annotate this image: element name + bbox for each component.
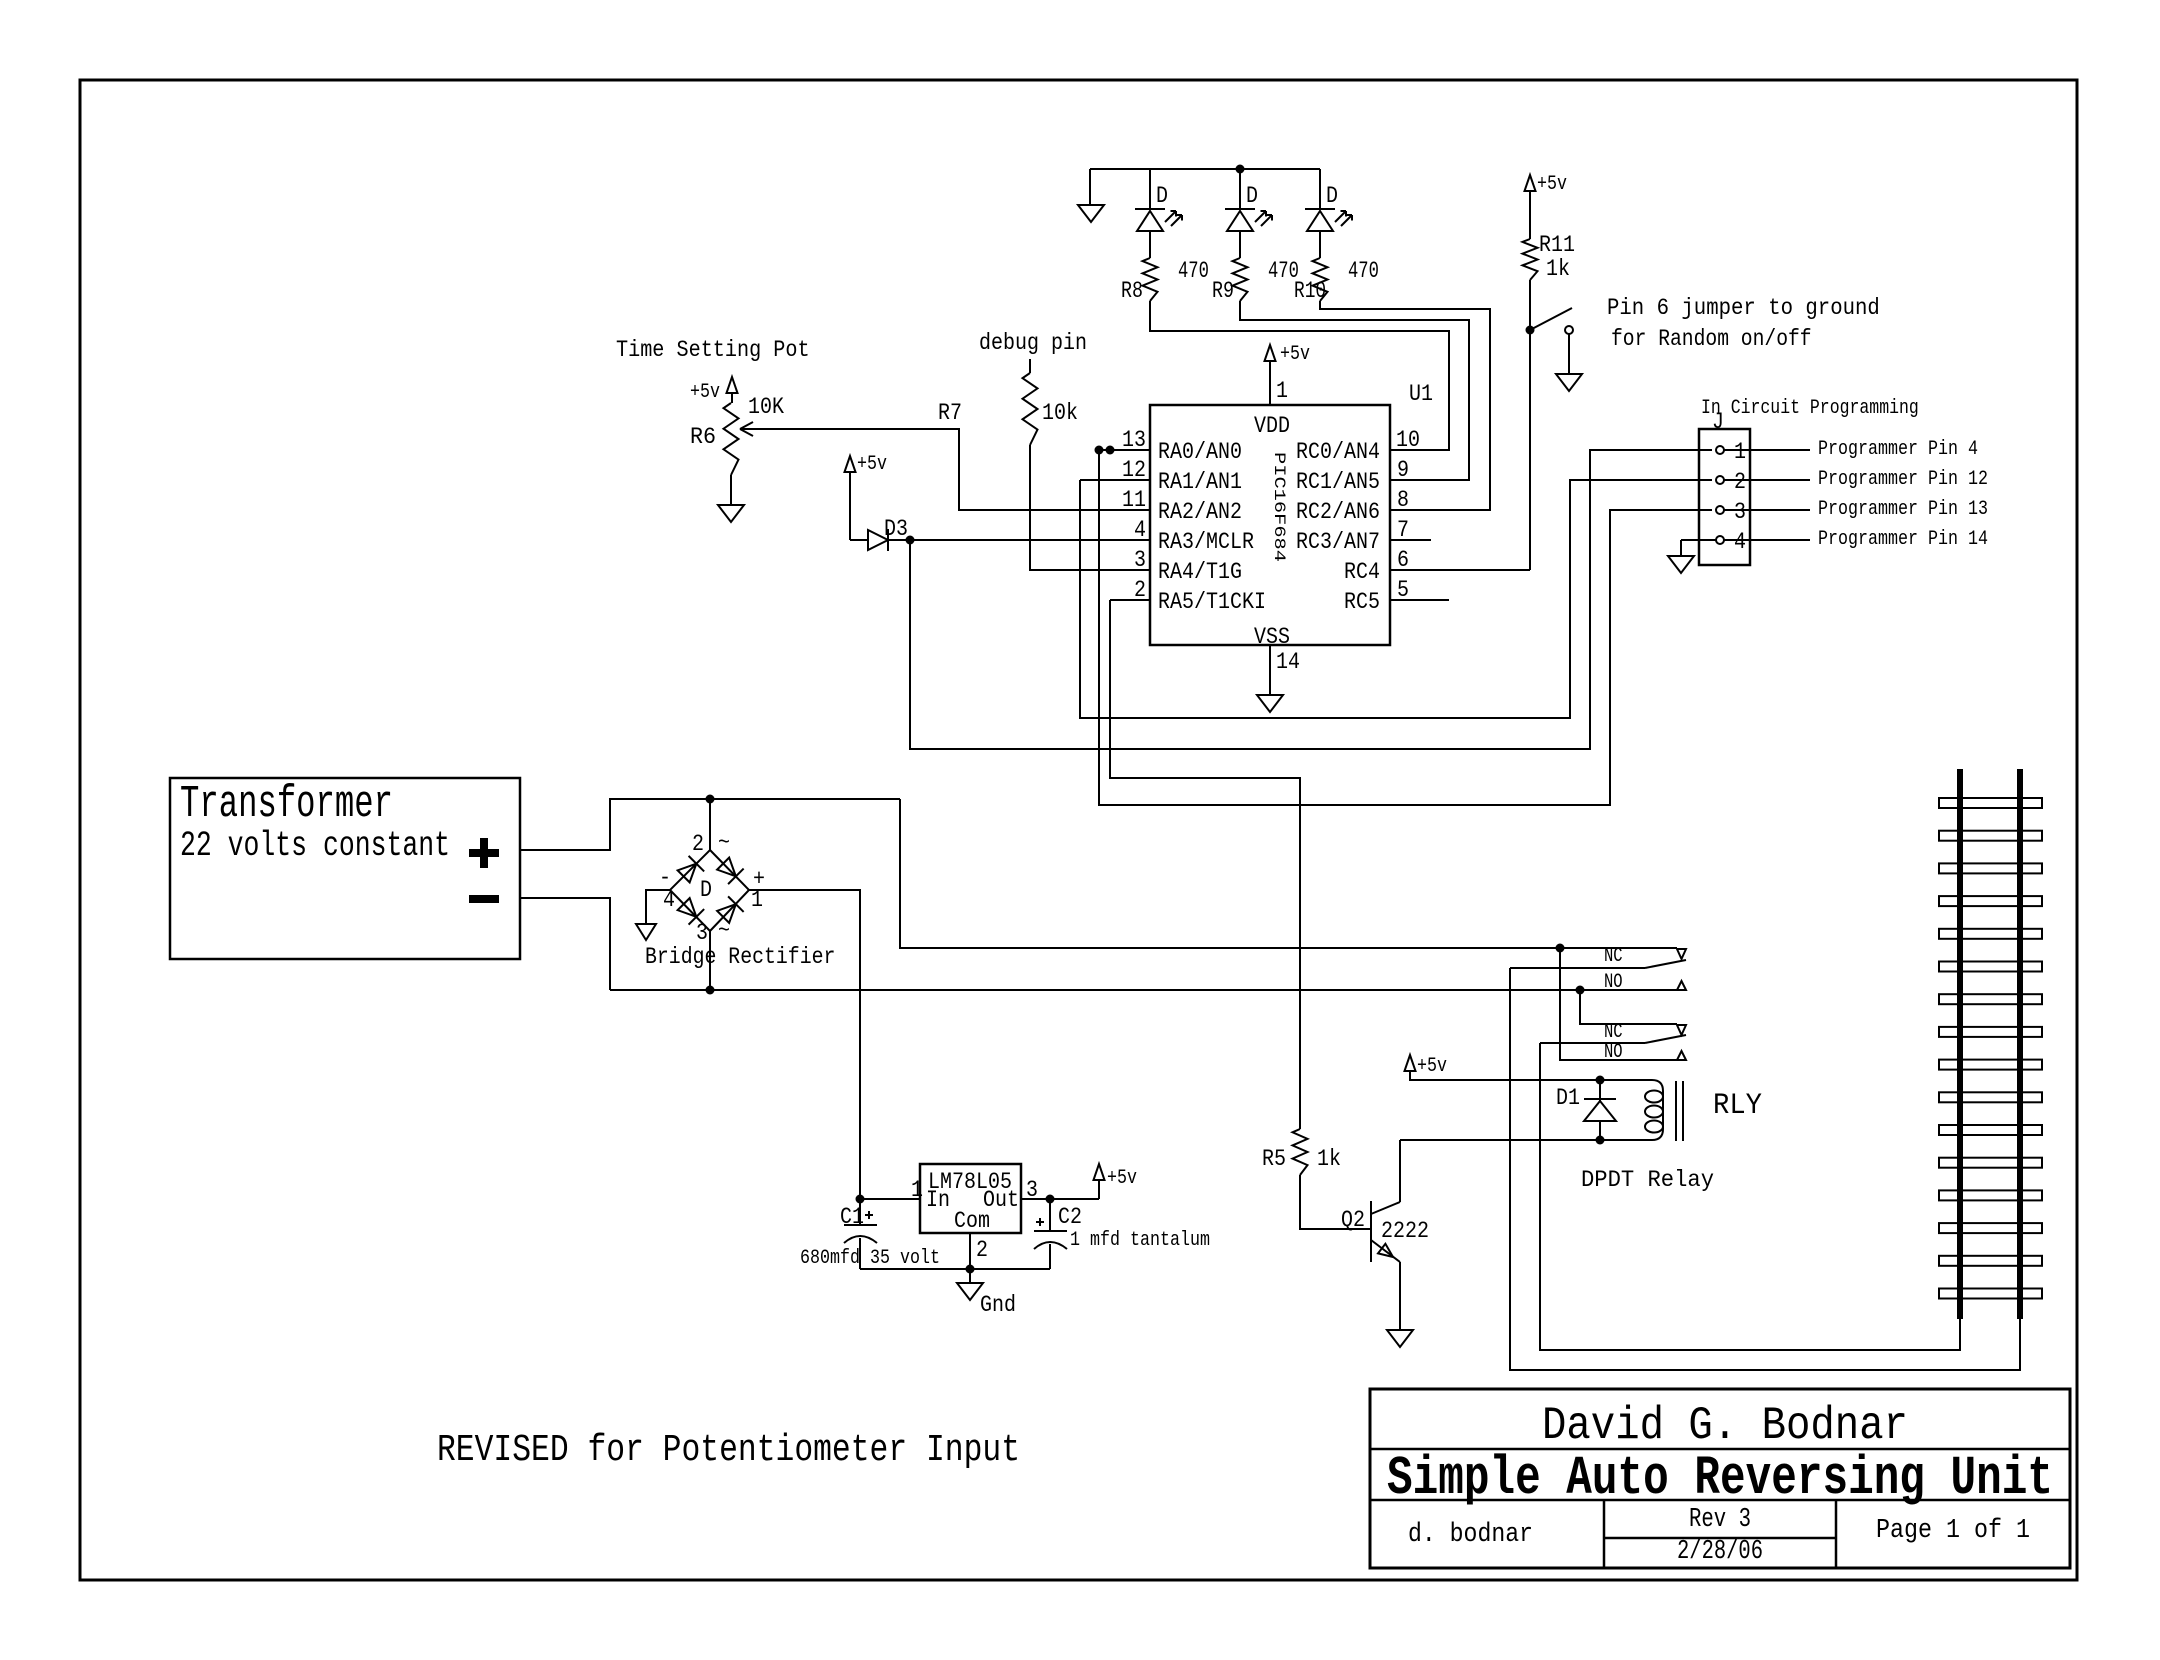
resistor R8 470 bbox=[1143, 258, 1158, 301]
svg-text:5: 5 bbox=[1397, 577, 1409, 603]
diode D1 bbox=[1599, 1080, 1601, 1101]
relay contact NO2 bbox=[1677, 1051, 1686, 1060]
resistor R10 470 bbox=[1313, 258, 1328, 301]
svg-text:3: 3 bbox=[1026, 1177, 1038, 1203]
svg-text:11: 11 bbox=[1122, 487, 1146, 513]
svg-text:Rev 3: Rev 3 bbox=[1689, 1505, 1751, 1535]
svg-text:1: 1 bbox=[1734, 439, 1746, 465]
track left rail bbox=[1957, 769, 1963, 1319]
jumper switch blade bbox=[1530, 308, 1572, 330]
regulator pin1 wire bbox=[860, 1198, 920, 1200]
svg-text:RC5: RC5 bbox=[1344, 589, 1380, 615]
node coil bottom bbox=[1596, 1136, 1605, 1145]
svg-text:~: ~ bbox=[718, 830, 730, 856]
wire header pin2 right bbox=[1724, 479, 1810, 481]
svg-text:R10: R10 bbox=[1294, 278, 1326, 304]
svg-text:VSS: VSS bbox=[1254, 624, 1290, 650]
wire MCLR to header pin1 bbox=[910, 450, 1712, 749]
svg-text:Programmer Pin 14: Programmer Pin 14 bbox=[1818, 528, 1988, 551]
svg-text:12: 12 bbox=[1122, 457, 1146, 483]
svg-text:10: 10 bbox=[1396, 427, 1420, 453]
svg-text:+5v: +5v bbox=[1537, 173, 1567, 196]
regulator LM78L05 box bbox=[920, 1164, 1021, 1233]
svg-text:D1: D1 bbox=[1556, 1085, 1580, 1111]
svg-text:3: 3 bbox=[696, 920, 708, 946]
svg-text:REVISED for Potentiometer Inpu: REVISED for Potentiometer Input bbox=[437, 1429, 1020, 1472]
svg-text:Gnd: Gnd bbox=[980, 1292, 1016, 1318]
pin 7 RC3/AN7 stub bbox=[1390, 539, 1431, 541]
svg-text:D: D bbox=[1156, 183, 1168, 209]
svg-text:d. bodnar: d. bodnar bbox=[1408, 1520, 1533, 1550]
transformer plus terminal bbox=[469, 849, 499, 857]
node D3 junction bbox=[906, 536, 915, 545]
svg-text:+5v: +5v bbox=[690, 381, 720, 404]
svg-text:Programmer Pin 12: Programmer Pin 12 bbox=[1818, 468, 1988, 491]
svg-text:+5v: +5v bbox=[857, 453, 887, 476]
node LED rail junction bbox=[1236, 165, 1245, 174]
svg-text:for Random on/off: for Random on/off bbox=[1611, 326, 1812, 352]
title mid sep bbox=[1604, 1537, 1836, 1540]
wire R9 to pin 9 bbox=[1240, 301, 1469, 480]
node NC1 junction bbox=[1556, 944, 1565, 953]
pin 5 RC5 stub bbox=[1390, 599, 1449, 601]
wire ac bottom to NO1 bbox=[610, 989, 1677, 991]
svg-text:RA2/AN2: RA2/AN2 bbox=[1158, 499, 1242, 525]
title row sep1 bbox=[1370, 1448, 2070, 1451]
wire header pin1 right bbox=[1724, 449, 1810, 451]
svg-text:Q2: Q2 bbox=[1341, 1207, 1365, 1233]
relay pole2 common and blade bbox=[1540, 1042, 1645, 1044]
svg-text:debug pin: debug pin bbox=[979, 330, 1087, 356]
svg-text:RLY: RLY bbox=[1713, 1089, 1762, 1123]
svg-text:Bridge Rectifier: Bridge Rectifier bbox=[645, 944, 835, 970]
wire header pin4 right bbox=[1724, 539, 1810, 541]
wire RA5 to R5 bbox=[1110, 600, 1300, 1129]
svg-text:470: 470 bbox=[1348, 258, 1379, 284]
svg-text:2: 2 bbox=[1734, 469, 1746, 495]
svg-text:22 volts constant: 22 volts constant bbox=[180, 826, 450, 866]
wire ac top to NC1 bbox=[900, 799, 1677, 948]
+5v (D3) bbox=[845, 456, 856, 472]
svg-text:2/28/06: 2/28/06 bbox=[1677, 1537, 1763, 1567]
svg-text:D: D bbox=[1246, 183, 1258, 209]
svg-text:RA0/AN0: RA0/AN0 bbox=[1158, 439, 1242, 465]
svg-text:1: 1 bbox=[911, 1177, 923, 1203]
svg-text:8: 8 bbox=[1397, 487, 1409, 513]
svg-text:U1: U1 bbox=[1409, 381, 1433, 407]
svg-text:680mfd 35 volt: 680mfd 35 volt bbox=[800, 1247, 940, 1270]
LED D (right) bbox=[1319, 169, 1321, 209]
pin 13 RA0/AN0 bbox=[1099, 449, 1150, 451]
VSS pin 14 ground bbox=[1269, 645, 1271, 695]
svg-text:D: D bbox=[700, 877, 712, 903]
svg-text:RC4: RC4 bbox=[1344, 559, 1380, 585]
resistor R9 470 bbox=[1233, 258, 1248, 301]
relay contact NC1 bbox=[1677, 949, 1686, 959]
wire transformer plus to bridge bbox=[520, 799, 900, 850]
svg-text:1k: 1k bbox=[1546, 256, 1570, 282]
pin 12 RA1/AN1 bbox=[1080, 479, 1150, 481]
svg-text:Com: Com bbox=[954, 1208, 990, 1234]
svg-text:DPDT Relay: DPDT Relay bbox=[1581, 1167, 1714, 1193]
svg-text:VDD: VDD bbox=[1254, 413, 1290, 439]
wire transformer minus bbox=[520, 898, 610, 990]
track right rail bbox=[2017, 769, 2023, 1319]
svg-text:Simple Auto Reversing Unit: Simple Auto Reversing Unit bbox=[1387, 1447, 2053, 1510]
bridge node 3 leg bbox=[709, 931, 711, 990]
node C2 junction bbox=[1046, 1195, 1055, 1204]
ground (regulator) bbox=[969, 1269, 971, 1283]
jumper switch terminal bbox=[1565, 326, 1573, 334]
transformer box bbox=[170, 778, 520, 959]
svg-text:R8: R8 bbox=[1121, 278, 1143, 304]
ground (header pin4) bbox=[1681, 539, 1716, 541]
header J pin 3 circle bbox=[1716, 506, 1724, 514]
node pin2 junction bbox=[966, 1265, 975, 1274]
bridge diode top-left bbox=[678, 864, 697, 883]
bridge diode bottom-right bbox=[717, 904, 736, 923]
potentiometer R6 10K bbox=[724, 403, 739, 475]
svg-text:1k: 1k bbox=[1317, 1146, 1341, 1172]
svg-text:+5v: +5v bbox=[1280, 343, 1310, 366]
svg-text:R9: R9 bbox=[1212, 278, 1234, 304]
svg-text:10k: 10k bbox=[1042, 400, 1078, 426]
title row sep2 bbox=[1370, 1499, 2070, 1502]
relay contact NO1 bbox=[1677, 981, 1686, 990]
svg-text:D: D bbox=[1326, 183, 1338, 209]
track right rail lead bbox=[2019, 1319, 2021, 1370]
svg-text:2: 2 bbox=[692, 831, 704, 857]
svg-text:R7: R7 bbox=[938, 400, 962, 426]
node pin13 dots bbox=[1095, 446, 1104, 455]
track left rail lead bbox=[1959, 1319, 1961, 1350]
title col sep2 bbox=[1835, 1500, 1838, 1568]
svg-text:NC: NC bbox=[1604, 945, 1623, 968]
svg-text:D3: D3 bbox=[884, 516, 908, 542]
svg-text:3: 3 bbox=[1134, 547, 1146, 573]
svg-text:R6: R6 bbox=[690, 424, 716, 450]
svg-text:9: 9 bbox=[1397, 457, 1409, 483]
LED D (middle) bbox=[1239, 169, 1241, 209]
svg-text:RA1/AN1: RA1/AN1 bbox=[1158, 469, 1242, 495]
title block frame bbox=[1370, 1389, 2070, 1568]
transistor Q2 2222 bbox=[1370, 1201, 1372, 1262]
svg-text:2222: 2222 bbox=[1381, 1218, 1429, 1244]
svg-text:13: 13 bbox=[1122, 427, 1146, 453]
node bridge ac top bbox=[706, 795, 715, 804]
+5v (R11) bbox=[1525, 175, 1536, 191]
wire RA0 to header pin3 bbox=[1099, 450, 1712, 805]
svg-text:R5: R5 bbox=[1262, 1146, 1286, 1172]
svg-text:Programmer Pin 4: Programmer Pin 4 bbox=[1818, 438, 1978, 461]
relay core bars bbox=[1675, 1081, 1677, 1141]
svg-text:3: 3 bbox=[1734, 499, 1746, 525]
header J pin 1 circle bbox=[1716, 446, 1724, 454]
ground (LED rail) bbox=[1089, 169, 1091, 205]
relay pole1 common and blade bbox=[1510, 967, 1645, 969]
relay contact NC2 bbox=[1677, 1025, 1686, 1035]
wire R8 to pin 10 bbox=[1150, 301, 1449, 450]
+5v (regulator out) bbox=[1098, 1180, 1100, 1199]
svg-text:2: 2 bbox=[976, 1237, 988, 1263]
svg-text:RC1/AN5: RC1/AN5 bbox=[1296, 469, 1380, 495]
LED supply rail wire bbox=[1090, 168, 1320, 170]
wire cross NC1-NO2 bbox=[1560, 948, 1677, 1060]
node C1 junction bbox=[856, 1195, 865, 1204]
transformer minus terminal bbox=[469, 895, 499, 903]
wire R7 to pin 3 bbox=[1030, 445, 1150, 570]
relay coil loops bbox=[1645, 1091, 1663, 1103]
svg-text:10K: 10K bbox=[748, 394, 784, 420]
+5v (relay) bbox=[1405, 1055, 1416, 1071]
node switch junction bbox=[1526, 326, 1535, 335]
resistor R5 1k bbox=[1293, 1129, 1308, 1175]
node bridge ac bottom bbox=[706, 986, 715, 995]
wire RA1 to header pin2 bbox=[1080, 480, 1712, 718]
node coil top bbox=[1596, 1076, 1605, 1085]
diode D3 bbox=[849, 472, 851, 540]
svg-text:14: 14 bbox=[1276, 649, 1300, 675]
wire header pin3 right bbox=[1724, 509, 1810, 511]
svg-text:1: 1 bbox=[1276, 378, 1288, 404]
pot wiper wire to pin 11 bbox=[740, 422, 753, 429]
wire pole1 common to right rail bbox=[1510, 968, 2020, 1370]
LED D (left) bbox=[1149, 169, 1151, 209]
ground (R6) bbox=[730, 475, 732, 505]
wire D3 to pin 4 bbox=[888, 539, 1150, 541]
wire R11 to pin 6 bbox=[1529, 280, 1531, 570]
svg-text:Pin 6 jumper to ground: Pin 6 jumper to ground bbox=[1607, 295, 1880, 321]
bridge diode top-right bbox=[717, 858, 736, 877]
svg-text:4: 4 bbox=[1134, 517, 1146, 543]
wire pole2 common to left rail bbox=[1540, 1043, 1960, 1350]
wire R5 to Q2 base bbox=[1300, 1175, 1370, 1229]
bridge rectifier diamond bbox=[670, 850, 749, 931]
svg-text:470: 470 bbox=[1178, 258, 1209, 284]
node NO1 junction bbox=[1576, 986, 1585, 995]
svg-text:RC2/AN6: RC2/AN6 bbox=[1296, 499, 1380, 525]
regulator pin2 bbox=[969, 1233, 971, 1269]
ground (jumper) bbox=[1568, 334, 1570, 374]
svg-text:7: 7 bbox=[1397, 517, 1409, 543]
svg-text:Time Setting Pot: Time Setting Pot bbox=[616, 337, 810, 363]
bridge node 2 leg bbox=[709, 799, 711, 850]
title col sep1 bbox=[1603, 1500, 1606, 1568]
wire R10 to pin 8 bbox=[1320, 301, 1490, 510]
regulator pin3 wire bbox=[1021, 1198, 1099, 1200]
svg-text:Transformer: Transformer bbox=[180, 779, 393, 830]
header J pin 2 circle bbox=[1716, 476, 1724, 484]
svg-text:RA4/T1G: RA4/T1G bbox=[1158, 559, 1242, 585]
svg-text:PIC16F684: PIC16F684 bbox=[1270, 452, 1288, 562]
regulator ground rail bbox=[860, 1268, 1050, 1270]
wire cross NO1-NC2 bbox=[1580, 990, 1677, 1024]
bridge diode bottom-left bbox=[678, 898, 697, 917]
svg-text:RC3/AN7: RC3/AN7 bbox=[1296, 529, 1380, 555]
ground (bridge minus) bbox=[646, 890, 670, 924]
svg-text:Page 1 of 1: Page 1 of 1 bbox=[1876, 1516, 2030, 1546]
wire bridge plus out bbox=[749, 890, 860, 1199]
svg-text:In Circuit Programming: In Circuit Programming bbox=[1701, 397, 1919, 420]
+5v (VDD) bbox=[1265, 345, 1276, 361]
IC U1 box bbox=[1150, 405, 1390, 645]
svg-text:C2: C2 bbox=[1058, 1204, 1082, 1230]
svg-text:RA5/T1CKI: RA5/T1CKI bbox=[1158, 589, 1266, 615]
svg-text:Programmer Pin 13: Programmer Pin 13 bbox=[1818, 498, 1988, 521]
svg-text:R11: R11 bbox=[1539, 232, 1575, 258]
pin 2 RA5/T1CKI bbox=[1110, 599, 1150, 601]
track ties bbox=[1939, 798, 2042, 808]
svg-text:J: J bbox=[1712, 409, 1724, 435]
svg-text:RA3/MCLR: RA3/MCLR bbox=[1158, 529, 1254, 555]
resistor R7 10k bbox=[1029, 359, 1031, 373]
relay coil outline bbox=[1400, 1071, 1663, 1140]
resistor R11 1k bbox=[1529, 191, 1531, 239]
svg-text:NO: NO bbox=[1604, 1041, 1623, 1064]
svg-text:2: 2 bbox=[1134, 577, 1146, 603]
svg-text:1 mfd tantalum: 1 mfd tantalum bbox=[1070, 1229, 1210, 1252]
svg-text:+5v: +5v bbox=[1417, 1055, 1447, 1078]
capacitor C2 bbox=[1049, 1199, 1051, 1231]
svg-text:RC0/AN4: RC0/AN4 bbox=[1296, 439, 1380, 465]
svg-text:David G. Bodnar: David G. Bodnar bbox=[1542, 1400, 1908, 1452]
header J pin 4 circle bbox=[1716, 536, 1724, 544]
ground (Q2 emitter) bbox=[1399, 1262, 1401, 1330]
svg-text:C1: C1 bbox=[840, 1204, 864, 1230]
svg-text:6: 6 bbox=[1397, 547, 1409, 573]
svg-text:4: 4 bbox=[1734, 529, 1746, 555]
svg-text:+5v: +5v bbox=[1107, 1167, 1137, 1190]
capacitor C1 bbox=[859, 1199, 861, 1225]
svg-text:In: In bbox=[926, 1187, 950, 1213]
svg-text:NO: NO bbox=[1604, 971, 1623, 994]
svg-text:~: ~ bbox=[718, 918, 730, 944]
